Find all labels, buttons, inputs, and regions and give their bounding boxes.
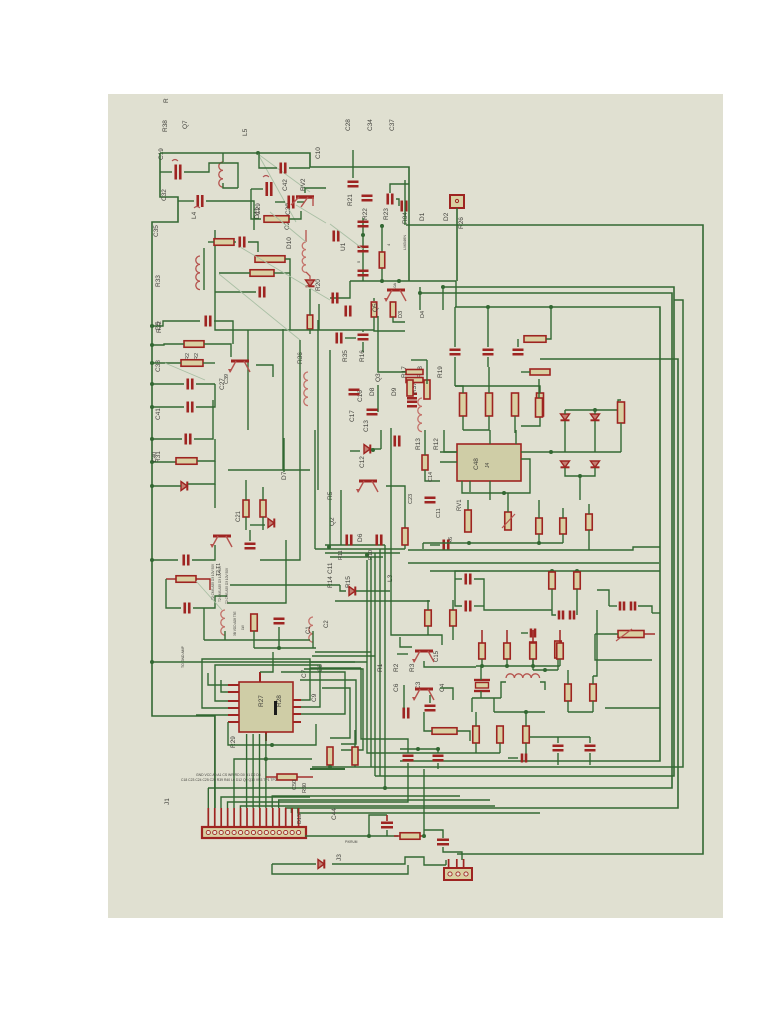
wire rung384: [152, 383, 184, 385]
svg-text:R30: R30: [302, 783, 308, 793]
resistor bc r1: [425, 610, 432, 626]
capacitor band R10: [377, 535, 382, 546]
wire t1 r lead: [166, 578, 176, 580]
svg-text:C21: C21: [236, 510, 242, 522]
svg-text:R38: R38: [162, 120, 169, 132]
resistor R18r: [424, 380, 430, 399]
wire bc r4t: [525, 712, 527, 726]
wire rm5 b: [576, 589, 578, 600]
svg-text:T2 CMS A55 D3 10V 50V: T2 CMS A55 D3 10V 50V: [225, 567, 229, 604]
wire band d2w: [250, 524, 265, 526]
svg-text:C23: C23: [408, 494, 414, 504]
wire bus L2: [375, 287, 674, 776]
junction D4: [441, 285, 445, 289]
wire u2 loopE: [228, 722, 316, 745]
wire row top: [455, 386, 463, 393]
wire bc c3b: [407, 763, 409, 769]
wire q1 b: [404, 545, 406, 549]
resistor row4b: [504, 643, 511, 659]
wire t1 coil b: [224, 631, 226, 640]
svg-text:C11: C11: [327, 562, 334, 574]
wire bc c3w: [407, 749, 409, 753]
svg-text:L4: L4: [191, 211, 198, 219]
junction bc712: [524, 710, 528, 714]
resistor u2 ra: [327, 747, 333, 765]
svg-text:R19: R19: [437, 366, 444, 378]
wire bc r1b2: [427, 626, 429, 635]
connector J1 pin 2: [213, 830, 217, 834]
connector J1 pin 9: [258, 830, 262, 834]
capacitor rung407: [188, 402, 193, 413]
wire bc h737: [530, 736, 590, 738]
junction u2 745: [270, 743, 274, 747]
wire bc c6w: [589, 737, 591, 743]
crystal X1 top bar: [474, 679, 490, 681]
transistor bc q1: [412, 651, 434, 663]
resistor row3: [512, 393, 519, 416]
wire rm b3: [588, 530, 590, 550]
wire C32 right: [184, 163, 238, 188]
wire db down: [579, 476, 581, 500]
junction row4 3: [531, 664, 535, 668]
wire u2 thick: [310, 768, 345, 770]
resistor t1 rv: [251, 614, 258, 631]
svg-text:C12: C12: [359, 456, 366, 468]
wire C48 left2: [440, 461, 457, 463]
connector J1 pin 11: [271, 830, 275, 834]
wire db m3: [594, 421, 596, 452]
wire rm h571: [430, 570, 660, 572]
wire rm b2w: [562, 534, 564, 543]
wire bc v494: [493, 698, 495, 712]
svg-text:R23: R23: [383, 208, 390, 220]
svg-text:R: R: [163, 98, 170, 103]
ratsnest L5: [258, 154, 310, 192]
wire rm12 t: [592, 676, 594, 684]
crystal X1 bottom bar: [474, 690, 490, 692]
wire bc r4b: [525, 743, 527, 758]
wire j3 loop top: [369, 815, 387, 836]
capacitor cc3: [395, 436, 400, 447]
svg-text:C35: C35: [153, 225, 160, 237]
wire R26 vert2: [455, 281, 457, 307]
wire bus L1: [400, 307, 660, 761]
resistor rung461: [176, 458, 197, 465]
resistor cr1: [407, 380, 413, 396]
wire bund arm668: [310, 667, 361, 669]
wire R23 up: [390, 184, 409, 193]
wire j3 diode out: [332, 857, 446, 865]
trimmer2 arrow: [502, 514, 515, 528]
junction bc c4: [436, 747, 440, 751]
capacitor L4: [198, 195, 203, 207]
wire t1 h640b: [225, 639, 310, 641]
connector J3 pin 3: [464, 872, 468, 876]
wire row4a b: [481, 659, 483, 666]
wire rm b1: [538, 534, 540, 543]
connector J3 pin 1: [448, 872, 452, 876]
resistor trim2: [505, 512, 512, 530]
wire row4d t: [559, 630, 561, 643]
svg-text:R32: R32: [156, 321, 163, 333]
wire band2: [315, 548, 405, 550]
wire bc h753: [476, 752, 500, 754]
wire u2 loopD: [281, 672, 345, 714]
polarity L4: [194, 207, 200, 209]
connector J3 pin 2: [456, 872, 460, 876]
wire q1 r: [386, 486, 405, 528]
wire C48 bot2: [489, 481, 491, 500]
svg-text:R3: R3: [409, 663, 416, 672]
ic U2 pin bottom: [265, 732, 267, 741]
wire rm10: [609, 605, 617, 607]
connector J1 pin 14: [290, 830, 294, 834]
junction j3 424: [422, 834, 426, 838]
wire bU1 a2: [374, 317, 405, 331]
connector J1 stub 11: [272, 808, 274, 827]
wire D4 v: [442, 287, 444, 310]
ratsnest D10: [270, 212, 306, 242]
wire U1 r v: [381, 224, 383, 281]
connector J1 pin 15: [297, 830, 301, 834]
transistor RV2 legs: [291, 197, 313, 207]
capacitor bc c5: [553, 746, 564, 751]
wire j1 p6: [240, 806, 495, 808]
wire R12 w: [444, 430, 457, 452]
wire D3 v: [419, 287, 421, 310]
wire rung326b: [214, 321, 233, 344]
wire cv4: [329, 350, 331, 547]
wire db top2: [594, 410, 596, 414]
svg-text:C13: C13: [363, 420, 370, 432]
capacitor band R11: [347, 535, 352, 546]
wire c545 w: [430, 544, 440, 546]
resistor row4: [537, 393, 544, 416]
connector J1 stub 1: [207, 808, 209, 827]
wire rmL loop: [455, 571, 480, 606]
svg-text:C6: C6: [393, 683, 400, 692]
transistor Q3l: [210, 536, 232, 548]
wire band4: [330, 556, 383, 558]
connector J1: [202, 827, 306, 838]
capacitor C32: [176, 165, 181, 180]
wire Q6 right: [256, 365, 273, 377]
svg-text:R28: R28: [276, 695, 283, 707]
wire R18 h: [411, 359, 427, 361]
wire mlb w6: [285, 259, 290, 330]
polarity D11: [263, 176, 269, 178]
wire v455b: [454, 357, 456, 386]
capacitor rung560: [184, 555, 189, 566]
wire t1 res lead: [196, 579, 210, 590]
capacitor rung326: [206, 316, 211, 327]
wire rm4 b: [551, 589, 553, 600]
wire C48 bot1: [469, 481, 471, 492]
wire row b3: [514, 416, 516, 433]
wire bund arm652: [315, 651, 371, 653]
wire bc rhw: [424, 712, 432, 731]
wire blockA: [215, 230, 374, 330]
inductor L5: [219, 162, 223, 187]
connector J1 pin 7: [245, 830, 249, 834]
resistor row4c: [530, 643, 537, 659]
wire rung363: [152, 362, 181, 364]
wire rm10b: [638, 606, 652, 613]
connector J1 pin 6: [238, 830, 242, 834]
svg-text:C37: C37: [389, 119, 396, 131]
wire bc r2t: [475, 712, 477, 726]
junction U1 b2: [397, 279, 401, 283]
wire db toph: [565, 400, 621, 410]
wire t1 loop: [166, 579, 181, 608]
wire row207 a: [178, 200, 194, 202]
svg-text:C32: C32: [161, 189, 168, 201]
svg-text:C15: C15: [434, 650, 440, 662]
connector J1 pin 13: [284, 830, 288, 834]
svg-text:R26: R26: [458, 217, 465, 229]
capacitor c545: [444, 540, 449, 551]
svg-text:J4: J4: [485, 463, 491, 469]
capacitor bc c4: [433, 756, 444, 761]
diode DB1: [561, 414, 570, 420]
wire cv1: [282, 329, 284, 470]
connector J1 pin 4: [226, 830, 230, 834]
wire U1 left drop: [330, 281, 350, 298]
wire ch1: [228, 469, 310, 471]
wire rm top2: [562, 508, 564, 518]
wire rung486: [152, 485, 181, 487]
junction band: [327, 545, 331, 549]
wire rm h708: [605, 707, 660, 709]
wire mlb w2: [234, 241, 236, 243]
diode DB3: [561, 461, 570, 467]
wire row4c t: [532, 630, 534, 643]
wire j3 capa bot: [386, 830, 388, 836]
junction U1 r: [380, 224, 384, 228]
resistor rm5: [574, 572, 581, 589]
wire bc c5b: [557, 753, 559, 765]
svg-text:C14: C14: [428, 472, 434, 482]
wire v539t: [538, 379, 540, 398]
resistor rm12: [590, 684, 597, 701]
wire rung560b: [192, 545, 215, 560]
wire j1 out right: [305, 835, 369, 837]
junction db m: [549, 450, 553, 454]
resistor rm8: [530, 642, 537, 658]
wire bund v385: [384, 545, 386, 788]
capacitor c337: [358, 335, 369, 340]
resistor c21a: [243, 500, 249, 517]
resistor q1: [402, 528, 408, 545]
wire X1 top: [480, 666, 482, 680]
wire rm8 b: [532, 658, 534, 670]
wire C48 b2: [462, 459, 530, 493]
wire j1 p4: [234, 759, 312, 808]
svg-text:D3: D3: [398, 311, 404, 318]
capacitor rung384: [188, 379, 193, 390]
wire bc coil r: [540, 682, 545, 690]
junction lb 462: [150, 460, 154, 464]
capacitor J3a lead: [386, 815, 388, 821]
svg-text:RV2: RV2: [300, 178, 307, 191]
wire X1 left: [471, 698, 473, 712]
junction v385: [383, 786, 387, 790]
testpoint R26 pin: [455, 199, 458, 202]
capacitor cc2: [367, 410, 378, 415]
wire bund v361: [361, 668, 408, 749]
wire L3 vert: [391, 428, 442, 645]
wire bc c4w: [437, 749, 439, 753]
svg-text:C7: C7: [301, 669, 308, 678]
wire bus L2b: [312, 300, 683, 767]
svg-text:R27: R27: [258, 695, 265, 707]
wire rung439b: [194, 433, 213, 439]
wire mlb w5: [215, 291, 256, 293]
wire j3 diode in: [272, 863, 316, 865]
capacitor D11: [267, 182, 272, 196]
wire db b: [565, 468, 595, 476]
resistor u2 rb: [352, 747, 358, 765]
capacitor R04: [402, 201, 407, 212]
wire X1 loop: [472, 697, 501, 699]
wire rm11 t: [567, 670, 569, 684]
wire res524 lead: [546, 307, 551, 339]
resistor mlb3b: [250, 270, 274, 277]
wire rmL r2: [474, 605, 484, 607]
wire t1 h640: [204, 639, 225, 641]
junction rm b: [537, 541, 541, 545]
capacitor rm10a: [620, 602, 624, 611]
wire bc r1bt: [452, 600, 454, 610]
wire c337b: [362, 342, 364, 352]
wire left border: [152, 153, 178, 663]
wire c21c v: [249, 530, 251, 541]
wire bc c5w: [557, 737, 559, 743]
capacitor U1 s3: [358, 271, 369, 276]
svg-text:Q5: Q5: [372, 303, 379, 312]
wire mlb w1: [208, 241, 214, 243]
svg-text:1W: 1W: [241, 625, 245, 630]
resistor rm3: [586, 514, 593, 530]
capacitor bc c3: [403, 756, 414, 761]
wire j1 p11: [272, 796, 460, 808]
wire j1 p3: [221, 797, 310, 808]
transistor Q5: [384, 290, 406, 302]
junction db t: [593, 408, 597, 412]
wire rm v597: [593, 610, 597, 676]
wire j1 p13: [284, 807, 286, 809]
wire c12 w: [350, 450, 360, 452]
wire bus L4: [285, 359, 678, 808]
capacitor cc1: [349, 390, 360, 395]
junction busF a: [486, 305, 490, 309]
inductor D10 coil: [302, 242, 306, 272]
svg-text:R21: R21: [347, 194, 354, 206]
resistor R524: [524, 336, 546, 343]
junction lb 345: [150, 343, 154, 347]
svg-text:C42: C42: [282, 179, 289, 191]
wire R20 v: [306, 272, 310, 280]
wire R30 l: [266, 776, 277, 778]
svg-text:R14: R14: [327, 576, 334, 588]
wire band3: [325, 552, 400, 554]
wire bc r1t: [427, 600, 429, 610]
wire C48 top: [489, 430, 491, 444]
wire c21 top2: [262, 487, 264, 500]
wire bus C: [404, 180, 406, 225]
capacitor c21c: [245, 544, 256, 549]
wire j3 bottom loop: [272, 864, 408, 874]
wire bc coil l: [501, 682, 506, 698]
wire bund arm662: [310, 661, 367, 663]
wire row4d b: [559, 659, 561, 666]
resistor db: [618, 402, 625, 423]
resistor bU1 a: [371, 302, 377, 317]
inductor ml coil: [196, 256, 200, 290]
svg-text:C39: C39: [224, 374, 230, 384]
wire t1 loop2: [193, 596, 227, 608]
capacitor bU1 c: [334, 231, 339, 242]
wire U1 cap stack: [362, 218, 364, 281]
wire v488: [487, 307, 489, 347]
resistor bc r4: [523, 726, 530, 743]
resistor rm9: [555, 641, 562, 658]
svg-text:R35: R35: [342, 350, 349, 362]
svg-text:R1: R1: [377, 663, 384, 672]
wire bc h749: [400, 748, 438, 750]
testpoint R26: [450, 195, 464, 208]
svg-text:R20: R20: [315, 279, 322, 291]
wire rung345b: [204, 344, 231, 357]
wire band v1: [314, 430, 316, 549]
junction j1 759: [264, 757, 268, 761]
resistor t1 res: [176, 576, 196, 583]
inductor bc coil: [506, 674, 540, 678]
capacitor bU1 d: [333, 293, 338, 304]
wire rm7: [521, 632, 528, 634]
junction lb 486: [150, 484, 154, 488]
wire t1 right v: [227, 540, 286, 603]
wire R04 link: [396, 199, 399, 206]
wire rm h712b: [568, 711, 593, 713]
wire u2 loop3: [322, 688, 350, 738]
svg-text:C18 C23 C24 C25 C26 R39 R40 L6: C18 C23 C24 C25 C26 R39 R40 L6 D12 Q9 Q1…: [181, 778, 277, 782]
wire row4b b: [506, 659, 508, 666]
wire bc rhw2: [457, 731, 470, 741]
ic C48: [457, 444, 521, 481]
resistor bc rh: [432, 728, 457, 735]
capacitor rmL1: [466, 574, 471, 585]
wire bc q1w2: [397, 653, 408, 655]
wire bc q1w: [400, 637, 412, 647]
svg-text:D4: D4: [420, 311, 426, 318]
inductor t1 coil2: [309, 617, 313, 642]
connector J1 pin 8: [251, 830, 255, 834]
wire bc h712: [494, 711, 545, 713]
wire rm11 b: [567, 701, 569, 712]
wire v488b: [487, 357, 489, 367]
diode band d2: [268, 519, 274, 528]
wire rm top1: [538, 500, 540, 518]
wire rung462: [152, 461, 176, 463]
junction j3 836: [367, 834, 371, 838]
wire trim r: [644, 633, 655, 635]
diode R20: [306, 280, 315, 286]
svg-text:Q7: Q7: [182, 120, 189, 129]
wire rung345: [152, 344, 184, 345]
wire u2 loopC: [260, 652, 273, 672]
wire rmL l2: [455, 578, 462, 580]
